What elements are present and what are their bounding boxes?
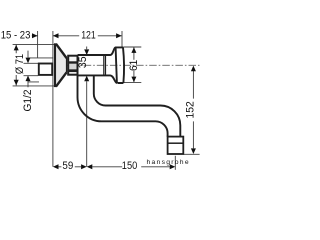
svg-text:59: 59 — [62, 160, 73, 172]
svg-text:Ø 71: Ø 71 — [14, 54, 26, 74]
svg-text:61: 61 — [128, 60, 140, 71]
svg-text:15 - 23: 15 - 23 — [1, 30, 31, 42]
svg-text:121: 121 — [81, 30, 96, 42]
svg-text:150: 150 — [122, 160, 138, 172]
svg-text:152: 152 — [184, 101, 196, 118]
svg-text:35: 35 — [77, 56, 89, 68]
svg-text:G1/2: G1/2 — [22, 89, 34, 111]
svg-text:hansgrohe: hansgrohe — [147, 159, 190, 166]
